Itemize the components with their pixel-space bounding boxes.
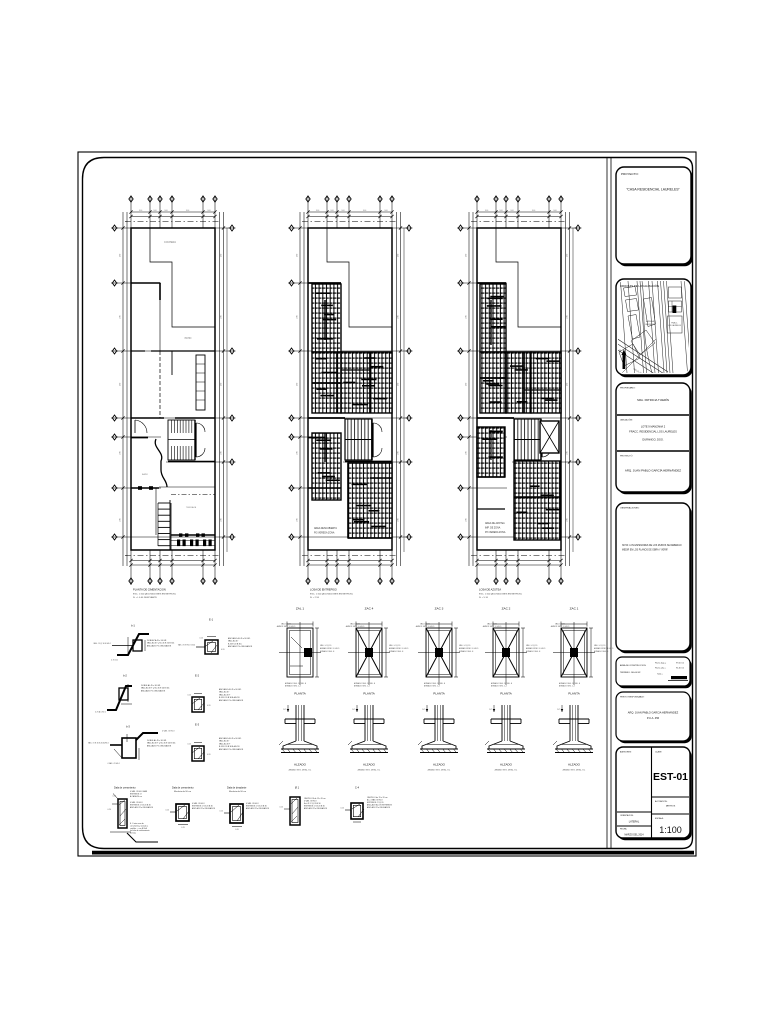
svg-text:0.20: 0.20 [235,829,239,831]
svg-text:ANCLADO AL 45 x 90 GR.: ANCLADO AL 45 x 90 GR. [219,737,242,740]
svg-text:AVENIDA: AVENIDA [646,320,655,323]
svg-text:"CASA RESIDENCIAL LAURELES": "CASA RESIDENCIAL LAURELES" [626,188,680,192]
svg-text:LAURELES: LAURELES [645,323,655,326]
svg-text:0.15: 0.15 [181,827,185,829]
sheet inner rounded frame [83,158,693,849]
svg-text:ACOTACION:: ACOTACION: [655,800,668,803]
svg-text:0.15: 0.15 [188,695,192,697]
svg-text:AMBOS SENT. E HILO: AMBOS SENT. E HILO [277,625,296,628]
svg-text:ARMADO SEG. DETAL. E: ARMADO SEG. DETAL. E [285,682,307,685]
svg-text:VAS. #4 @ 20: VAS. #4 @ 20 [459,644,470,647]
svg-text:2.80: 2.80 [466,383,468,386]
plan 3 slab hatch upper-left [480,284,506,352]
svg-text:b-2: b-2 [123,674,127,678]
svg-text:Mocheta de 90 cm: Mocheta de 90 cm [174,790,191,793]
plan 1 interior walls [131,282,160,284]
svg-text:PLANTA: PLANTA [433,692,444,696]
svg-text:NOTA: LOS ESPESORES DE LOS MUR: NOTA: LOS ESPESORES DE LOS MUROS SE DEBE… [622,544,682,547]
title box observaciones [618,505,692,653]
svg-text:PLANTA: PLANTA [500,692,511,696]
svg-text:AMBAS DIREC. E HILO: AMBAS DIREC. E HILO [459,647,479,650]
svg-text:ALZADO: ALZADO [363,763,376,767]
svg-text:ARMADO SEG. 1-2: ARMADO SEG. 1-2 [559,685,575,688]
svg-text:2.80: 2.80 [466,518,468,521]
plan 1 grid frame [130,201,132,228]
svg-text:0.70 A 0.90 m: 0.70 A 0.90 m [95,711,106,714]
svg-text:2.80: 2.80 [221,383,223,386]
svg-text:Planta alta =: Planta alta = [655,667,666,670]
svg-text:2.80: 2.80 [466,254,468,257]
plan 2 slab hatch region mid-right [341,352,392,413]
svg-text:ALZADO: ALZADO [294,763,307,767]
svg-text:DOBLEZ A 45 x 90 GR.: DOBLEZ A 45 x 90 GR. [147,639,167,642]
svg-text:PLANTA DE CIMENTACION: PLANTA DE CIMENTACION [133,588,166,592]
svg-text:VAS. AL 45°T: VAS. AL 45°T [219,693,231,696]
svg-text:ARMADO SEG. E: ARMADO SEG. E [320,650,335,653]
svg-text:2.80: 2.80 [221,254,223,257]
svg-text:SRA. PATRICIA TIJERÍN: SRA. PATRICIA TIJERÍN [637,398,669,402]
svg-text:LOTE 9 MANZANA 2: LOTE 9 MANZANA 2 [641,425,666,429]
svg-text:VAS. AL 45°T: VAS. AL 45°T [219,742,231,745]
svg-text:VAS. #4 @ 20: VAS. #4 @ 20 [526,644,537,647]
plan 2 grid frame [307,201,309,228]
svg-text:3.00: 3.00 [384,210,387,212]
plan 2 stairs [345,419,372,460]
plan 3 slab hatch lower-left [477,427,505,477]
footing detail ZAC 1 elevation [569,705,571,741]
plan 3 slab hatch mid-center [506,352,531,413]
svg-text:AMBOS SENT. E HILO: AMBOS SENT. E HILO [551,625,570,628]
svg-text:2.80: 2.80 [398,518,400,521]
plan 2 slab hatch region upper-left [312,284,341,352]
svg-text:ARMADO SEG. DETAL. E: ARMADO SEG. DETAL. E [354,682,376,685]
svg-text:97.60 m2: 97.60 m2 [676,663,684,665]
svg-text:3.00: 3.00 [532,210,535,212]
svg-text:ANCLADO P/o OBLIGADOS: ANCLADO P/o OBLIGADOS [219,748,244,751]
svg-text:TERRENO: 160.00 M2: TERRENO: 160.00 M2 [620,672,641,674]
plan 3 grid frame [476,201,478,228]
svg-text:ARMADO SEG. E: ARMADO SEG. E [389,650,404,653]
svg-text:AMBOS SENT. E HILO: AMBOS SENT. E HILO [483,625,502,628]
svg-text:3.00: 3.00 [553,210,556,212]
svg-text:ZAC 1: ZAC 1 [570,607,579,611]
footing detail ZAL 1 elevation [295,705,297,741]
svg-text:ORIENTACION:: ORIENTACION: [620,814,634,817]
plan 3 cistern x-box [540,421,559,453]
svg-text:ARMADO SEG. 1-2: ARMADO SEG. 1-2 [491,685,507,688]
svg-text:2.80: 2.80 [120,451,122,454]
svg-text:ANCLADO P/o OBLIGADOS: ANCLADO P/o OBLIGADOS [367,806,391,809]
svg-text:ARMADO SEG. DETAL. E-1: ARMADO SEG. DETAL. E-1 [358,769,381,772]
svg-text:P.U.A. 456: P.U.A. 456 [647,716,660,720]
svg-text:ARMADO SEG. DETAL. E: ARMADO SEG. DETAL. E [491,682,513,685]
svg-text:PERITO RESPONSABLE:: PERITO RESPONSABLE: [620,696,645,699]
svg-text:E-2: E-2 [195,674,200,678]
svg-text:PLANTA: PLANTA [568,692,579,696]
svg-text:3.00: 3.00 [330,210,333,212]
svg-text:b-1: b-1 [131,624,135,628]
svg-text:OBSERVACIONES:: OBSERVACIONES: [620,507,640,510]
svg-text:FECHA:: FECHA: [620,828,627,831]
svg-text:MEDIR EN LOS PLANOS DE OBRA Y: MEDIR EN LOS PLANOS DE OBRA Y VERIF. [622,549,669,552]
svg-text:VAS. #4 @ 20: VAS. #4 @ 20 [320,644,331,647]
svg-text:2.80: 2.80 [297,383,299,386]
svg-text:AREA DE AZOTEA: AREA DE AZOTEA [485,522,505,525]
svg-text:2.80: 2.80 [398,451,400,454]
svg-text:2.80: 2.80 [297,254,299,257]
svg-text:ARMADO SEG. 1-2: ARMADO SEG. 1-2 [424,685,440,688]
svg-text:ARQ. JUAN PABLO GARCÍA HERNÁND: ARQ. JUAN PABLO GARCÍA HERNÁNDEZ [625,469,681,473]
svg-text:ARMADO SEG. E: ARMADO SEG. E [459,650,474,653]
svg-text:ESCALA:: ESCALA: [655,817,664,820]
svg-text:DOBLE AL 45 x 90 GR.: DOBLE AL 45 x 90 GR. [147,739,167,742]
svg-text:B 45 E 20 B 30 A HILOS: B 45 E 20 B 30 A HILOS [219,745,240,748]
title box main (EST-01) [618,749,692,840]
svg-text:ARMADO SEG. DETAL. E: ARMADO SEG. DETAL. E [424,682,446,685]
footing detail ZAC 2 elevation [501,705,503,741]
footing detail ZAC 3 elevation [434,705,436,741]
svg-text:PROYECTÓ:: PROYECTÓ: [620,455,633,458]
svg-text:ARMADO SEG. E: ARMADO SEG. E [526,650,541,653]
plan 2 slab hatch region lower-right [348,463,392,538]
svg-text:ANCLADO AL 45 x 90 GR.: ANCLADO AL 45 x 90 GR. [228,637,251,640]
svg-text:LOS LAURELES: LOS LAURELES [668,324,682,327]
svg-text:EST-01: EST-01 [653,771,688,783]
svg-text:P/3 VEREDA ZONA: P/3 VEREDA ZONA [314,532,335,535]
svg-text:0.15: 0.15 [113,796,117,798]
plan 3 stairs [514,419,541,460]
title box owner/location/architect [618,385,692,494]
plan 2 slab hatch region lower-left [312,433,341,500]
svg-text:FRACC.: FRACC. [671,322,678,325]
svg-text:VAS. AL 45° y 90, 45 E 20 B 30: VAS. AL 45° y 90, 45 E 20 B 30s [147,642,174,645]
svg-text:2.80: 2.80 [120,315,122,318]
svg-text:ARMADO SEG. DETAL. E-1: ARMADO SEG. DETAL. E-1 [289,769,312,772]
title box firma responsable [618,694,692,743]
svg-text:TERRAZA: TERRAZA [186,506,197,509]
svg-text:PROPIETARIO:: PROPIETARIO: [620,387,636,390]
svg-text:ANCLADO AL 45 x 90 GR.: ANCLADO AL 45 x 90 GR. [219,688,242,691]
title box croquis map [618,281,693,377]
svg-text:2.80: 2.80 [221,518,223,521]
svg-text:ANCLADO P/o OBLIGADOS: ANCLADO P/o OBLIGADOS [147,744,172,747]
svg-text:ZAL 1: ZAL 1 [296,607,304,611]
svg-text:ALZADO: ALZADO [568,763,581,767]
svg-text:2.80: 2.80 [466,451,468,454]
svg-text:2.80: 2.80 [221,315,223,318]
svg-text:0.70 min: 0.70 min [111,660,118,662]
svg-text:VAS. #4 @ 20: VAS. #4 @ 20 [389,644,400,647]
svg-text:ARMADO SEG. 1-2: ARMADO SEG. 1-2 [285,685,301,688]
svg-text:ARMADO SEG. DETAL. E-1: ARMADO SEG. DETAL. E-1 [495,769,518,772]
svg-text:AMBAS DIREC. E HILO: AMBAS DIREC. E HILO [320,647,340,650]
svg-text:ANCLADO P/o OBLIGADOS: ANCLADO P/o OBLIGADOS [141,689,166,692]
svg-text:Dala de desplante: Dala de desplante [227,787,247,790]
svg-text:AMBOS SENT. E HILO: AMBOS SENT. E HILO [416,625,435,628]
title box PROYECTO [618,169,693,266]
svg-text:CLAVE:: CLAVE: [655,751,662,754]
svg-text:IMP. DE ZONA: IMP. DE ZONA [485,527,501,530]
svg-text:Planta baja =: Planta baja = [655,662,667,665]
svg-text:3.00: 3.00 [363,210,366,212]
svg-text:Dala de cerramiento: Dala de cerramiento [172,787,194,790]
svg-text:VAS. AL 45°: VAS. AL 45° [219,740,229,743]
svg-text:3.00: 3.00 [485,210,488,212]
svg-text:0.15: 0.15 [341,808,345,810]
svg-text:ARMADO SEG. DETAL. E: ARMADO SEG. DETAL. E [559,682,581,685]
svg-text:VAS. #3 E 30 B 45 A HILO: VAS. #3 E 30 B 45 A HILO [88,742,110,745]
svg-text:ANCLADO P/o OBLIGADOS: ANCLADO P/o OBLIGADOS [130,806,154,809]
svg-text:ANCLADO P/o OBLIGADOS: ANCLADO P/o OBLIGADOS [219,699,244,702]
svg-text:PLANTA: PLANTA [294,692,305,696]
svg-text:2.80: 2.80 [297,451,299,454]
svg-text:AREA DESCUBIERTA: AREA DESCUBIERTA [314,527,337,530]
svg-text:ARMADO SEG. E: ARMADO SEG. E [594,650,609,653]
svg-text:0.20: 0.20 [207,754,211,756]
svg-text:2.80: 2.80 [297,315,299,318]
svg-text:Mocheta de 90 cm: Mocheta de 90 cm [229,790,246,793]
svg-text:AMBAS DIREC. E HILO: AMBAS DIREC. E HILO [389,647,409,650]
svg-text:CROQUIS DE LOCALIZACIÓN: CROQUIS DE LOCALIZACIÓN [620,283,659,288]
svg-text:2.80: 2.80 [398,254,400,257]
svg-text:PLANTA: PLANTA [363,692,374,696]
svg-text:LOSA DE AZOTEA: LOSA DE AZOTEA [479,588,501,592]
svg-text:B 45 E 20 B 30s: B 45 E 20 B 30s [228,643,242,645]
svg-text:0.20: 0.20 [207,705,211,707]
title box areas [618,659,692,688]
svg-text:b-3: b-3 [126,725,130,729]
svg-text:N. + 5.10: N. + 5.10 [479,597,489,599]
sheet outer border [78,152,696,856]
plan 3 slab hatch mid-right [531,352,561,413]
svg-text:FRACC. RESIDENCIAL LOS LAURELE: FRACC. RESIDENCIAL LOS LAURELES [629,430,677,434]
svg-text:BAÑO: BAÑO [142,473,148,476]
svg-text:A CADA 20 cm: A CADA 20 cm [130,795,142,798]
svg-text:3.00: 3.00 [153,210,156,212]
svg-text:N. + 2.55: N. + 2.55 [310,597,320,599]
svg-text:E-3: E-3 [195,723,200,727]
svg-text:VAS. #4 @ 20: VAS. #4 @ 20 [594,644,605,647]
svg-text:ESC. 1:100 (ACOTACIONES EN MET: ESC. 1:100 (ACOTACIONES EN METROS) [133,593,176,596]
svg-text:ESC. 1:100 (ACOTACIONES EN MET: ESC. 1:100 (ACOTACIONES EN METROS) [479,593,522,596]
svg-text:0.15: 0.15 [188,744,192,746]
plan 3 interior walls [477,282,506,284]
svg-text:2.80: 2.80 [221,451,223,454]
svg-text:AMBOS SENT. E HILO: AMBOS SENT. E HILO [346,625,365,628]
svg-text:0.20: 0.20 [221,649,225,651]
svg-text:2.80: 2.80 [567,518,569,521]
title panel separator lines [606,158,608,848]
svg-text:MARZO DEL 2014: MARZO DEL 2014 [624,834,644,837]
svg-text:ZAC 3: ZAC 3 [435,607,444,611]
svg-text:ARMADO SEG. DETAL. E-1: ARMADO SEG. DETAL. E-1 [428,769,451,772]
svg-text:2.80: 2.80 [567,383,569,386]
footing detail ZAC 4 elevation [364,705,366,741]
svg-text:AMBAS DIREC. E HILO: AMBAS DIREC. E HILO [594,647,614,650]
svg-text:PATIO: PATIO [185,337,192,340]
plan 2 interior heavy walls in slab [336,352,338,413]
svg-text:Ø 1: Ø 1 [295,786,300,790]
svg-text:ARQ. JUAN PABLO GARCIA HERNAND: ARQ. JUAN PABLO GARCIA HERNANDEZ [628,711,679,715]
svg-text:0.15: 0.15 [166,810,170,812]
svg-text:VAS. #3 @ 30 E HILO: VAS. #3 @ 30 E HILO [93,642,111,645]
plan 3 slab hatch mid-left [480,352,506,413]
svg-text:AMBAS DIREC. E HILO: AMBAS DIREC. E HILO [526,647,546,650]
svg-text:2.80: 2.80 [120,518,122,521]
svg-text:2.80: 2.80 [398,315,400,318]
svg-text:COCHERA: COCHERA [164,241,176,244]
svg-text:3.00: 3.00 [186,210,189,212]
svg-text:4 VAS. #3 HILO: 4 VAS. #3 HILO [107,762,120,765]
svg-text:ZAC 2: ZAC 2 [502,607,511,611]
svg-text:ALZADO: ALZADO [433,763,446,767]
svg-text:0.15: 0.15 [220,811,224,813]
svg-text:3.00: 3.00 [207,210,210,212]
svg-text:C-4: C-4 [355,786,360,790]
svg-text:2.80: 2.80 [120,254,122,257]
svg-text:METROS: METROS [666,806,676,808]
svg-text:ANCLADO P/o OBLIGADOS: ANCLADO P/o OBLIGADOS [228,645,253,648]
svg-text:Total =: Total = [657,673,664,676]
svg-text:3.00: 3.00 [510,210,513,212]
svg-text:ANCLADO P/o OBLIGADOS: ANCLADO P/o OBLIGADOS [147,644,172,647]
svg-text:2.80: 2.80 [567,254,569,257]
svg-text:AREA DE CONSTRUCCION:: AREA DE CONSTRUCCION: [620,664,647,667]
svg-text:DURANGO, DGO.: DURANGO, DGO. [642,438,664,442]
svg-text:LATERAL: LATERAL [629,821,640,824]
svg-text:4 VAS. #3 HILO: 4 VAS. #3 HILO [162,730,175,733]
svg-text:E-1: E-1 [209,618,214,622]
svg-text:B 45 E 20 B 30 A HILOS: B 45 E 20 B 30 A HILOS [219,696,240,699]
svg-text:N. +/- 0.00 DESPLANTE: N. +/- 0.00 DESPLANTE [133,596,157,599]
svg-text:3.00: 3.00 [139,210,142,212]
plan 2 interior walls [308,282,341,284]
svg-text:VAS. #3 E HILO @20: VAS. #3 E HILO @20 [178,644,195,647]
svg-text:UBICACIÓN:: UBICACIÓN: [620,419,633,422]
svg-text:ESC. 1:100 (ACOTACIONES EN MET: ESC. 1:100 (ACOTACIONES EN METROS) [310,593,353,596]
svg-text:ARMADO SEG. DETAL. E-1: ARMADO SEG. DETAL. E-1 [563,769,586,772]
svg-text:VAS. AL 45°T y 90, 45 E 20 B 3: VAS. AL 45°T y 90, 45 E 20 B 30s [141,687,169,690]
svg-text:95.40 m2: 95.40 m2 [676,668,684,670]
svg-text:ANCLADO P/o OBLIGADOS: ANCLADO P/o OBLIGADOS [246,807,270,810]
svg-text:ZAC 4: ZAC 4 [365,607,374,611]
svg-text:PROYECTO:: PROYECTO: [621,172,639,176]
svg-text:VAS. AL 45°T y 90, 45 E 20 B 3: VAS. AL 45°T y 90, 45 E 20 B 30s [147,742,175,745]
svg-text:ANCLADO P/o OBLIGADOS: ANCLADO P/o OBLIGADOS [192,807,216,810]
svg-text:3.00: 3.00 [316,210,319,212]
svg-text:2.80: 2.80 [120,383,122,386]
svg-text:3.00: 3.00 [341,210,344,212]
svg-text:2.80: 2.80 [297,518,299,521]
svg-text:3.00: 3.00 [499,210,502,212]
svg-text:1:100: 1:100 [659,825,682,835]
svg-text:VAS. AL 45°: VAS. AL 45° [228,640,238,643]
svg-text:3.00: 3.00 [164,210,167,212]
svg-text:ANCLADO P/o OBLIGADOS: ANCLADO P/o OBLIGADOS [304,807,328,810]
svg-text:VAS. AL 45°: VAS. AL 45° [219,691,229,694]
svg-text:Dala de cerramiento: Dala de cerramiento [114,787,136,790]
plan 3 slab hatch lower-right [514,461,560,540]
svg-text:LOSA DE ENTREPISO: LOSA DE ENTREPISO [310,588,337,592]
svg-text:DOBLE AL 45 x 90 GR.: DOBLE AL 45 x 90 GR. [141,684,161,687]
svg-text:2.80: 2.80 [567,451,569,454]
svg-text:0.15: 0.15 [200,638,204,640]
svg-text:0.20: 0.20 [108,809,112,811]
plan 3 interior heavy walls in slab [505,352,507,413]
svg-text:2.80: 2.80 [398,383,400,386]
svg-text:ASESORES:: ASESORES: [620,751,632,754]
sheet frame bottom shadow [92,851,694,855]
plan 2 slab hatch region mid-left [312,352,341,413]
svg-text:ARMADO SEG. 1-2: ARMADO SEG. 1-2 [354,685,370,688]
svg-text:2.80: 2.80 [567,315,569,318]
svg-text:de Dala: de Dala [130,833,136,835]
svg-text:P/3 VEREDA ZONA: P/3 VEREDA ZONA [485,531,506,534]
svg-text:ALZADO: ALZADO [500,763,513,767]
svg-text:0.15: 0.15 [280,807,284,809]
svg-text:2.80: 2.80 [466,315,468,318]
